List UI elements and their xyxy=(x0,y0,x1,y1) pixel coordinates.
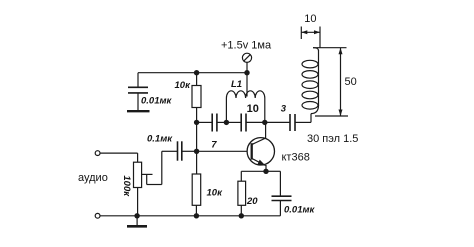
resistor R1 10k top xyxy=(192,73,201,123)
capacitor C1 0.01mk left decoupling xyxy=(128,73,148,111)
svg-text:кт368: кт368 xyxy=(282,152,310,164)
svg-text:0.01мк: 0.01мк xyxy=(284,205,316,216)
svg-text:10: 10 xyxy=(304,13,316,25)
wire bottom rail xyxy=(100,215,280,217)
potentiometer R4 100k xyxy=(134,151,178,216)
antenna coil L2 30 turns xyxy=(302,48,347,114)
wire top supply rail xyxy=(138,72,247,74)
node dots xyxy=(134,70,268,219)
svg-text:0.01мк: 0.01мк xyxy=(141,95,173,106)
wire base node vertical xyxy=(196,122,198,151)
dimension 10 top xyxy=(301,27,320,48)
terminal audio bottom xyxy=(95,213,100,218)
ground left under C1 xyxy=(127,110,150,112)
svg-text:20: 20 xyxy=(246,196,258,207)
capacitor C6 0.1mk input xyxy=(178,141,197,160)
terminal audio top xyxy=(95,151,137,162)
power terminal +1.5v xyxy=(242,53,251,72)
ground bottom xyxy=(127,216,147,227)
capacitor C4 3pF output xyxy=(265,114,311,131)
svg-text:аудио: аудио xyxy=(78,172,108,184)
dimension 50 right xyxy=(315,48,348,116)
svg-text:+1.5v 1ма: +1.5v 1ма xyxy=(221,40,272,52)
resistor R2 10k lower xyxy=(192,151,201,216)
svg-text:50: 50 xyxy=(345,76,357,88)
resistor R3 20 emitter xyxy=(238,171,266,216)
capacitor C3 10pF tank xyxy=(226,114,264,132)
svg-text:0.1мк: 0.1мк xyxy=(147,133,173,144)
svg-text:10: 10 xyxy=(247,103,259,115)
svg-text:3: 3 xyxy=(281,103,287,114)
capacitor C2 7pF coupling xyxy=(197,114,227,132)
inductor L1 xyxy=(226,73,264,123)
svg-text:30 пэл 1.5: 30 пэл 1.5 xyxy=(307,133,358,145)
svg-text:L1: L1 xyxy=(231,79,242,90)
svg-text:10к: 10к xyxy=(175,80,192,91)
svg-text:100к: 100к xyxy=(121,175,132,197)
svg-text:7: 7 xyxy=(211,140,217,151)
svg-text:10к: 10к xyxy=(207,188,224,199)
capacitor C5 0.01mk emitter bypass xyxy=(266,171,292,216)
transistor Q1 kt368 xyxy=(197,122,275,171)
